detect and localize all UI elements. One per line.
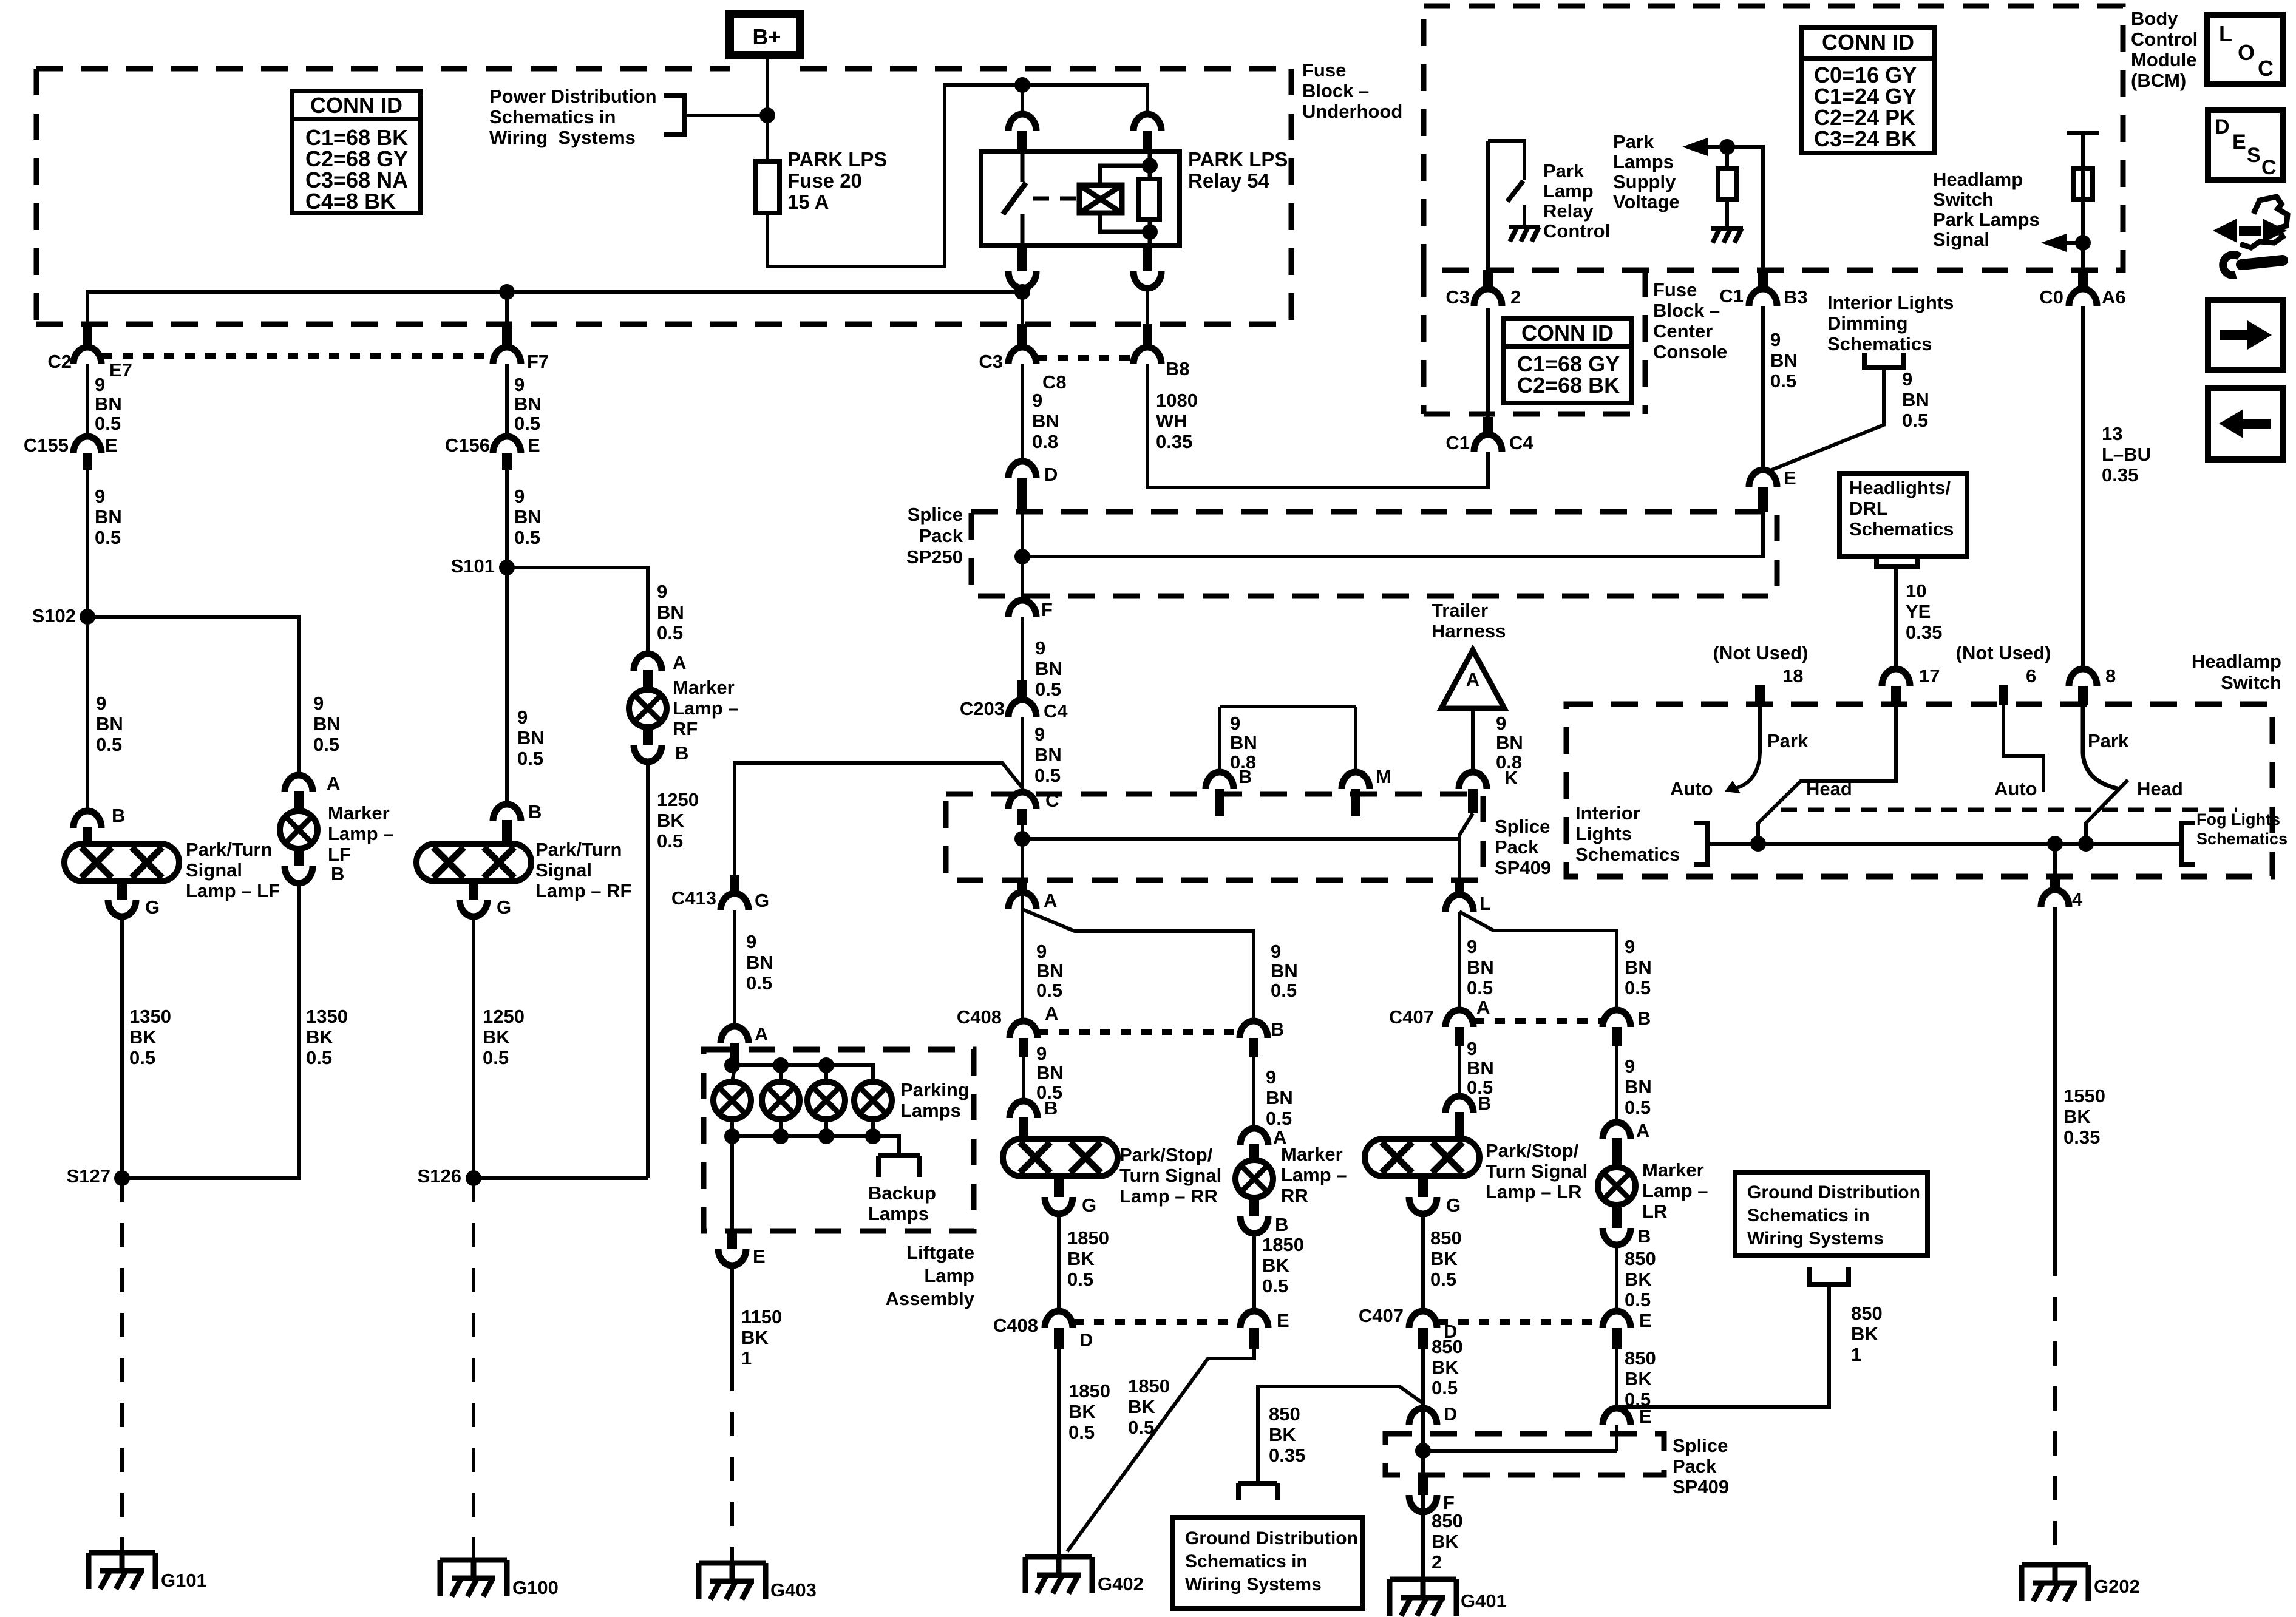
svg-text:Signal: Signal — [535, 859, 592, 881]
svg-text:0.5: 0.5 — [1036, 980, 1062, 1001]
svg-text:0.5: 0.5 — [1067, 1269, 1093, 1290]
connector C408 pin B — [1240, 1021, 1268, 1038]
svg-text:Headlamp: Headlamp — [2192, 651, 2281, 672]
park/stop/turn signal lamp RR — [1003, 1139, 1118, 1176]
junction SP409 — [1014, 831, 1030, 847]
wire C413 riser joining C — [735, 763, 1022, 875]
svg-text:Interior: Interior — [1575, 802, 1640, 824]
svg-text:BN: BN — [1902, 389, 1929, 410]
svg-text:PARK LPS: PARK LPS — [1188, 148, 1288, 171]
svg-text:BN: BN — [1034, 744, 1062, 765]
connector A marker RF — [634, 654, 662, 671]
svg-text:BN: BN — [95, 393, 122, 415]
park/turn signal lamp LF — [64, 844, 179, 881]
svg-text:B: B — [528, 801, 542, 822]
svg-text:0.8: 0.8 — [1032, 431, 1058, 452]
parking lamps top bus — [732, 1065, 873, 1082]
bulb parking lamp 1 — [713, 1082, 751, 1119]
svg-text:0.5: 0.5 — [95, 413, 121, 434]
svg-text:Park/Turn: Park/Turn — [535, 839, 622, 860]
svg-text:1080: 1080 — [1156, 390, 1198, 411]
svg-text:0.5: 0.5 — [483, 1047, 509, 1068]
wire S101 to lamp RF — [505, 568, 509, 804]
svg-text:S101: S101 — [451, 555, 495, 577]
svg-text:0.5: 0.5 — [1128, 1417, 1154, 1438]
svg-text:BN: BN — [746, 952, 773, 973]
svg-text:BN: BN — [1770, 350, 1798, 371]
svg-text:Block –: Block – — [1653, 300, 1720, 321]
backup lamps stub — [873, 1136, 899, 1156]
dotted pairing C408 A-B — [1038, 1029, 1240, 1035]
svg-text:Pack: Pack — [1495, 836, 1539, 858]
svg-text:CONN ID: CONN ID — [1521, 320, 1614, 345]
CONN ID table (BCM) — [1802, 27, 1934, 153]
svg-text:Backup: Backup — [868, 1182, 936, 1204]
svg-text:850: 850 — [1430, 1227, 1462, 1249]
svg-text:E: E — [753, 1246, 766, 1267]
svg-text:A: A — [755, 1023, 768, 1045]
connector M SP409 — [1342, 772, 1370, 789]
splice pack SP409 dashed box — [946, 794, 1483, 880]
svg-text:9: 9 — [514, 374, 525, 395]
svg-text:BK: BK — [1269, 1424, 1296, 1445]
svg-text:9: 9 — [1266, 1066, 1276, 1088]
svg-text:(BCM): (BCM) — [2131, 70, 2186, 91]
connector A marker LR — [1603, 1122, 1631, 1139]
svg-text:BK: BK — [1262, 1255, 1289, 1276]
svg-text:Splice: Splice — [908, 504, 963, 525]
svg-text:Power Distribution: Power Distribution — [489, 86, 657, 107]
junction signal arrow — [2075, 235, 2091, 251]
connector B marker RR — [1240, 1216, 1268, 1233]
resistor signal — [2074, 169, 2093, 200]
liftgate lamp assembly dashed box — [704, 1049, 974, 1231]
ground G402 — [1025, 1557, 1092, 1593]
svg-text:Lamp –: Lamp – — [328, 823, 394, 844]
connector B park/turn LF — [73, 811, 101, 828]
connector C407 pin E — [1603, 1311, 1631, 1328]
svg-text:9: 9 — [1035, 637, 1045, 659]
splice S126 — [466, 1170, 481, 1186]
svg-text:E: E — [1784, 467, 1796, 489]
svg-text:Schematics in: Schematics in — [1747, 1205, 1870, 1225]
svg-text:S126: S126 — [418, 1165, 461, 1187]
svg-text:0.5: 0.5 — [657, 622, 683, 643]
junction bus park lamps — [1014, 284, 1030, 300]
svg-text:B: B — [675, 742, 688, 764]
svg-text:9: 9 — [1032, 390, 1042, 411]
connector D SP409 lower — [1409, 1408, 1437, 1425]
wire G to S127 — [120, 917, 124, 1178]
svg-text:9: 9 — [517, 707, 528, 728]
junction SP409 lower — [1415, 1443, 1431, 1459]
svg-text:0.5: 0.5 — [1625, 1097, 1651, 1118]
svg-text:BN: BN — [1271, 960, 1298, 981]
svg-text:BN: BN — [313, 713, 341, 734]
wire F7 to C156 — [505, 364, 509, 436]
svg-text:Dimming: Dimming — [1827, 313, 1908, 334]
wire marker LR B to C407 E — [1615, 1245, 1618, 1311]
junction supply resistor — [1719, 139, 1735, 155]
svg-text:Headlights/: Headlights/ — [1849, 477, 1951, 498]
connector A marker RR — [1240, 1128, 1268, 1145]
svg-text:C0: C0 — [2039, 286, 2063, 308]
svg-text:Schematics: Schematics — [1827, 333, 1932, 354]
svg-text:K: K — [1504, 767, 1518, 788]
connector C2 pin E7 — [83, 324, 92, 347]
connector C408 pin E — [1240, 1311, 1268, 1328]
svg-text:0.5: 0.5 — [306, 1047, 332, 1068]
wire B+ down to fuse — [766, 55, 769, 161]
svg-text:E: E — [2232, 131, 2246, 154]
svg-text:BK: BK — [1625, 1368, 1652, 1389]
svg-text:Parking: Parking — [900, 1079, 970, 1100]
connector C1 pin C4 — [1474, 435, 1502, 452]
svg-text:B8: B8 — [1166, 358, 1190, 379]
connector C203 pin C4 — [1017, 680, 1027, 700]
svg-text:Marker: Marker — [1642, 1159, 1704, 1181]
svg-text:BN: BN — [1036, 1062, 1064, 1083]
connector B marker RF — [634, 745, 662, 762]
bulb marker lamp RF — [629, 690, 667, 727]
junction F7 drop — [499, 284, 515, 300]
svg-text:BK: BK — [2063, 1106, 2091, 1127]
svg-text:0.5: 0.5 — [1271, 980, 1297, 1001]
svg-text:G: G — [1082, 1195, 1096, 1216]
connector F7 — [502, 324, 512, 347]
connector G park/stop LR — [1418, 1176, 1428, 1197]
wire C408 E diagonal to G402 — [1067, 1349, 1254, 1551]
svg-text:8: 8 — [2105, 665, 2116, 686]
svg-text:Switch: Switch — [1933, 189, 1994, 210]
connector C3 pin C8 — [1017, 324, 1027, 347]
svg-text:0.35: 0.35 — [1156, 431, 1192, 452]
wire fuse to relay feed — [767, 85, 1147, 266]
svg-text:A: A — [1476, 997, 1490, 1018]
wire E to G403 — [730, 1266, 734, 1367]
svg-text:Auto: Auto — [1670, 778, 1713, 799]
svg-text:Liftgate: Liftgate — [906, 1242, 974, 1263]
svg-text:Body: Body — [2131, 8, 2178, 29]
svg-text:Pack: Pack — [919, 525, 963, 546]
svg-text:850: 850 — [1851, 1303, 1883, 1324]
svg-text:Lamps: Lamps — [868, 1203, 929, 1224]
svg-text:Block –: Block – — [1302, 80, 1369, 101]
svg-text:C155: C155 — [24, 435, 69, 456]
svg-text:Lamp –: Lamp – — [1281, 1164, 1347, 1185]
svg-text:BK: BK — [1432, 1531, 1459, 1552]
svg-text:C407: C407 — [1359, 1305, 1404, 1326]
svg-text:0.5: 0.5 — [96, 734, 122, 755]
svg-text:1250: 1250 — [657, 789, 699, 810]
body control module dashed box — [1424, 6, 2123, 270]
svg-text:9: 9 — [1770, 329, 1781, 350]
svg-text:0.5: 0.5 — [746, 972, 772, 994]
svg-text:BN: BN — [1625, 1076, 1652, 1097]
svg-text:Module: Module — [2131, 49, 2197, 70]
svg-text:Head: Head — [2137, 778, 2183, 799]
svg-text:Console: Console — [1653, 341, 1727, 362]
svg-text:G: G — [755, 890, 769, 911]
svg-text:C1: C1 — [1719, 285, 1744, 307]
svg-text:BK: BK — [1128, 1396, 1155, 1417]
svg-text:9: 9 — [1625, 1056, 1635, 1077]
icon DESC — [2208, 110, 2283, 180]
splice pack SP409 lower dashed box — [1385, 1434, 1664, 1475]
bracket ground distribution 1 — [1238, 1483, 1277, 1500]
svg-text:Schematics: Schematics — [1849, 518, 1954, 540]
connector L below SP409 — [1455, 880, 1464, 895]
splice S127 — [114, 1170, 130, 1186]
bulb parking lamp 2 — [762, 1082, 800, 1119]
svg-text:BN: BN — [1266, 1087, 1293, 1108]
svg-text:BK: BK — [657, 810, 684, 831]
svg-text:1350: 1350 — [306, 1006, 348, 1027]
svg-text:BK: BK — [129, 1026, 157, 1048]
svg-text:Lamp: Lamp — [1543, 180, 1594, 202]
svg-text:Ground Distribution: Ground Distribution — [1185, 1528, 1358, 1548]
connector E SP409 lower — [1603, 1408, 1631, 1425]
connector B SP409 — [1206, 772, 1234, 789]
wire drop to F7 — [505, 292, 509, 345]
svg-text:C3: C3 — [1445, 286, 1470, 308]
svg-text:Marker: Marker — [328, 802, 390, 824]
relay coil link top — [1100, 166, 1150, 185]
svg-text:Wiring Systems: Wiring Systems — [489, 127, 636, 148]
svg-text:C408: C408 — [993, 1315, 1038, 1336]
svg-text:9: 9 — [95, 374, 105, 395]
svg-text:Trailer: Trailer — [1432, 600, 1488, 621]
connector B park/stop RR — [1010, 1101, 1038, 1118]
wire S127 to G101 dashed — [120, 1178, 124, 1553]
svg-text:0.5: 0.5 — [514, 413, 540, 434]
connector relay out 87 — [1008, 271, 1036, 288]
connector B marker LF — [285, 866, 313, 883]
svg-text:9: 9 — [1271, 941, 1281, 962]
svg-text:G: G — [145, 897, 160, 918]
svg-text:BK: BK — [306, 1026, 333, 1048]
svg-text:Auto: Auto — [1994, 778, 2037, 799]
svg-text:10: 10 — [1906, 580, 1926, 602]
svg-text:Fuse: Fuse — [1653, 279, 1697, 300]
svg-text:S102: S102 — [32, 605, 76, 626]
ground distribution schematics box 1 — [1173, 1517, 1363, 1609]
svg-text:Lights: Lights — [1575, 823, 1632, 844]
connector F to G401 — [1418, 1475, 1428, 1495]
svg-text:9: 9 — [1034, 724, 1045, 745]
pin 8 — [2069, 669, 2097, 686]
splice S102 — [80, 609, 95, 625]
svg-text:BN: BN — [95, 506, 122, 527]
svg-text:9: 9 — [95, 486, 105, 507]
svg-text:13: 13 — [2102, 423, 2122, 444]
svg-text:C4: C4 — [1044, 700, 1068, 722]
ground G100 — [440, 1560, 507, 1596]
ground G202 — [2022, 1565, 2088, 1601]
wire marker RF to S126 — [646, 762, 650, 1178]
wire DRL to pin 17 — [1894, 567, 1898, 669]
marker lamp LR chain — [1615, 1046, 1618, 1122]
svg-text:Lamp – LF: Lamp – LF — [186, 880, 280, 901]
svg-text:BN: BN — [1032, 410, 1059, 432]
CONN ID table (console) — [1504, 319, 1631, 403]
relay switch blade — [1003, 183, 1026, 214]
svg-text:Relay: Relay — [1543, 200, 1594, 222]
bulb marker lamp LR — [1598, 1167, 1635, 1205]
svg-text:SP250: SP250 — [906, 546, 963, 568]
bulb parking lamp 4 — [854, 1082, 892, 1119]
B+ terminal — [730, 14, 800, 55]
svg-text:B: B — [1271, 1019, 1284, 1040]
svg-text:E: E — [1277, 1310, 1289, 1331]
svg-text:18: 18 — [1782, 665, 1803, 686]
svg-text:BN: BN — [1467, 957, 1494, 978]
svg-text:0.5: 0.5 — [1034, 765, 1061, 786]
pin 4 — [2053, 844, 2057, 876]
svg-text:D: D — [1079, 1329, 1093, 1351]
svg-text:Park: Park — [1767, 730, 1809, 751]
svg-text:G402: G402 — [1098, 1573, 1144, 1595]
svg-text:2: 2 — [1432, 1551, 1442, 1573]
wire C408 D to G402 — [1057, 1349, 1061, 1557]
svg-text:Marker: Marker — [1281, 1144, 1343, 1165]
svg-text:0.5: 0.5 — [1467, 977, 1493, 998]
wire S126 branch — [474, 1176, 648, 1180]
connector relay switch pin — [1008, 114, 1036, 131]
junction SP250 — [1014, 549, 1030, 564]
svg-text:0.35: 0.35 — [2102, 464, 2138, 486]
svg-text:C2=68 BK: C2=68 BK — [1517, 373, 1620, 398]
connector C — [1008, 792, 1036, 809]
svg-text:0.5: 0.5 — [1625, 1289, 1651, 1310]
svg-text:9: 9 — [1467, 936, 1477, 957]
bus SP250 to fuse block center console — [1022, 489, 1763, 557]
splice pack SP250 dashed box — [971, 512, 1777, 596]
svg-text:B: B — [1637, 1008, 1651, 1029]
svg-text:Switch: Switch — [2221, 672, 2281, 693]
svg-text:BK: BK — [1432, 1357, 1459, 1378]
svg-text:E7: E7 — [109, 359, 132, 381]
wire pin 6 auto — [2003, 705, 2043, 792]
switch blade 18 to auto — [1735, 753, 1760, 788]
svg-text:BK: BK — [741, 1327, 769, 1348]
svg-text:Lamps: Lamps — [900, 1100, 961, 1121]
wire parking lamps to E — [730, 1136, 734, 1231]
svg-text:Lamp –: Lamp – — [673, 697, 739, 719]
svg-text:850: 850 — [1269, 1403, 1300, 1425]
wire S101 branch to marker RF — [507, 568, 648, 654]
svg-text:0.35: 0.35 — [1269, 1445, 1305, 1466]
wire G RF to S126 — [472, 917, 475, 1178]
svg-text:1150: 1150 — [741, 1306, 782, 1327]
svg-text:850: 850 — [1432, 1336, 1463, 1357]
bulb marker lamp LF — [280, 811, 318, 849]
connector B8 — [1143, 324, 1152, 347]
svg-text:B: B — [1238, 766, 1252, 787]
connector C0 pin A6 — [2078, 270, 2088, 289]
svg-text:Center: Center — [1653, 320, 1713, 342]
svg-text:BK: BK — [1068, 1401, 1096, 1422]
svg-text:C413: C413 — [671, 887, 716, 909]
svg-text:9: 9 — [657, 581, 667, 602]
connector E liftgate — [718, 1249, 746, 1266]
switch blade — [1507, 181, 1523, 202]
svg-text:A: A — [673, 652, 686, 673]
svg-text:850: 850 — [1625, 1347, 1656, 1369]
svg-text:BN: BN — [514, 506, 542, 527]
svg-text:M: M — [1376, 766, 1391, 787]
svg-text:BK: BK — [1430, 1248, 1458, 1269]
svg-text:BN: BN — [1625, 957, 1652, 978]
wire S102 to lamp LF — [86, 617, 89, 811]
svg-text:D: D — [1444, 1403, 1457, 1425]
svg-text:C3: C3 — [979, 351, 1003, 372]
bracket power distribution — [664, 96, 684, 134]
svg-text:0.5: 0.5 — [95, 527, 121, 548]
svg-text:LR: LR — [1642, 1201, 1667, 1222]
dotted pairing line C8-B8 — [1037, 355, 1133, 361]
wire C408A to lamp RR — [1022, 1057, 1025, 1101]
bus SP409 — [1022, 837, 1459, 841]
svg-text:LF: LF — [328, 844, 351, 865]
split to C408 pins A and B — [1022, 909, 1254, 1021]
svg-text:B: B — [1637, 1225, 1651, 1247]
svg-text:B: B — [112, 805, 125, 826]
T bar — [2067, 131, 2099, 135]
svg-text:(Not Used): (Not Used) — [1956, 642, 2051, 663]
svg-text:Park/Stop/: Park/Stop/ — [1486, 1140, 1579, 1161]
svg-text:0.5: 0.5 — [1902, 410, 1928, 431]
svg-text:D: D — [1044, 464, 1058, 485]
svg-text:BN: BN — [517, 727, 545, 748]
wire C155 to S102 — [86, 456, 89, 617]
svg-text:Pack: Pack — [1673, 1456, 1717, 1477]
svg-text:BN: BN — [657, 602, 684, 623]
connector B park/turn RF — [493, 804, 521, 821]
svg-text:Lamps: Lamps — [1613, 151, 1674, 172]
wire through SP409 — [1021, 825, 1024, 920]
junction B+ feed — [759, 107, 775, 123]
svg-text:Schematics in: Schematics in — [489, 106, 616, 127]
svg-text:Ground Distribution: Ground Distribution — [1747, 1182, 1920, 1202]
PARK LPS Relay 54 — [981, 152, 1180, 246]
connector K — [1459, 772, 1487, 789]
wire supply voltage to B3 — [1706, 147, 1763, 270]
svg-text:0.5: 0.5 — [514, 527, 540, 548]
connector G park/turn LF — [117, 881, 127, 900]
wire S102 branch to marker LF — [87, 617, 299, 775]
connector relay out 85 — [1133, 271, 1161, 288]
svg-text:Fog Lights: Fog Lights — [2196, 810, 2280, 829]
svg-text:1850: 1850 — [1262, 1234, 1304, 1255]
svg-text:Park: Park — [1613, 131, 1654, 152]
bus SP409 lower — [1423, 1449, 1617, 1453]
switch coupling dashed — [1781, 808, 2237, 812]
svg-text:C408: C408 — [957, 1006, 1002, 1028]
switch blade 8 to head — [2083, 705, 2120, 789]
svg-text:C3=24 BK: C3=24 BK — [1814, 126, 1917, 151]
svg-text:Park/Stop/: Park/Stop/ — [1119, 1144, 1213, 1165]
svg-text:Schematics: Schematics — [1575, 844, 1680, 865]
connector A below SP409 — [1008, 892, 1036, 909]
svg-text:Signal: Signal — [186, 859, 242, 881]
svg-text:YE: YE — [1906, 601, 1931, 622]
headlights DRL schematics box — [1839, 473, 1967, 557]
svg-text:G202: G202 — [2094, 1576, 2140, 1597]
tap 850 BK 1 to ground distribution 2 — [1617, 1284, 1829, 1407]
svg-text:A: A — [1044, 890, 1057, 911]
svg-text:Lamp – RF: Lamp – RF — [535, 880, 631, 901]
